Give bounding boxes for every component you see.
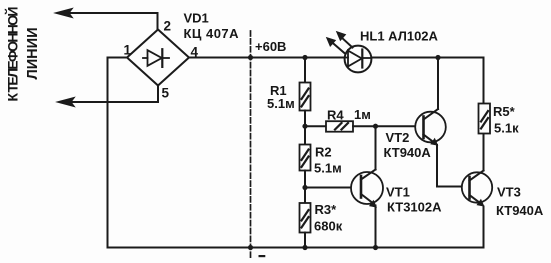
node: VT2 collector on top rail xyxy=(435,55,440,60)
resistor R4 xyxy=(305,121,416,132)
top rail wire from pin 4 to right corner xyxy=(189,57,484,59)
svg-text:5.1к: 5.1к xyxy=(494,121,519,136)
wire VT1 collector up to R4 wire xyxy=(375,126,377,169)
transistor VT1 xyxy=(351,170,383,208)
label minus xyxy=(259,255,266,257)
resistor R2 xyxy=(300,126,311,187)
svg-text:1м: 1м xyxy=(354,107,371,122)
wire VT1 emitter down to bottom rail xyxy=(375,206,377,248)
svg-text:VT1: VT1 xyxy=(386,185,410,200)
resistor R3* xyxy=(300,188,311,248)
svg-text:5.1м: 5.1м xyxy=(267,96,295,111)
svg-text:VT3: VT3 xyxy=(497,185,521,200)
LED HL1 diode symbol xyxy=(345,50,371,68)
wire VT2 emitter down and right to VT3 base xyxy=(437,145,462,187)
svg-text:R5*: R5* xyxy=(493,104,516,119)
wire VT2 collector up to top rail xyxy=(437,58,439,110)
node: VT1 collector on R4 wire xyxy=(373,124,378,129)
bridge rectifier VD1 diamond xyxy=(127,30,189,86)
arrow to telephone line (top) xyxy=(55,8,73,17)
svg-text:5.1м: 5.1м xyxy=(314,161,342,176)
node: R1 branch on top rail xyxy=(302,55,307,60)
bottom rail wire xyxy=(108,247,484,249)
arrow to telephone line (bottom) xyxy=(57,97,75,106)
wire VT3 emitter down to bottom rail corner xyxy=(483,207,485,248)
svg-text:КТ940А: КТ940А xyxy=(496,203,544,218)
svg-text:КТ3102А: КТ3102А xyxy=(387,200,442,215)
svg-text:2: 2 xyxy=(164,19,172,34)
LED emission arrow 2 xyxy=(337,32,353,48)
LED HL1 circle xyxy=(345,46,372,73)
svg-text:1: 1 xyxy=(124,43,132,58)
transistor VT3 xyxy=(462,171,492,207)
svg-text:680к: 680к xyxy=(314,219,343,234)
wire VT3 collector up to R5 xyxy=(483,134,485,171)
node: dashed line on top rail xyxy=(248,55,253,60)
diode symbol inside VD1 xyxy=(143,49,169,67)
svg-text:R2: R2 xyxy=(315,145,332,160)
svg-text:VD1: VD1 xyxy=(184,11,209,26)
resistor R5* xyxy=(479,58,491,134)
wire from bridge pin 5 to bottom arrow xyxy=(72,86,158,103)
wire from bridge pin 2 to top arrow xyxy=(70,13,158,30)
svg-text:R3*: R3* xyxy=(315,202,338,217)
svg-text:VT2: VT2 xyxy=(386,130,410,145)
node: VT1 emitter on bottom rail xyxy=(373,245,378,250)
svg-text:+60В: +60В xyxy=(255,39,286,54)
LED emission arrow 1 xyxy=(327,38,346,55)
wire from bridge pin 1 down to bottom rail xyxy=(108,58,128,248)
svg-text:КЦ 407А: КЦ 407А xyxy=(184,26,240,41)
svg-text:5: 5 xyxy=(162,86,170,101)
svg-text:R4: R4 xyxy=(327,108,344,123)
node: R3 bottom on bottom rail xyxy=(302,245,307,250)
svg-text:ЛИНИИ: ЛИНИИ xyxy=(25,28,41,80)
svg-text:КТ940А: КТ940А xyxy=(384,145,432,160)
svg-text:HL1 АЛ102А: HL1 АЛ102А xyxy=(360,29,439,44)
node A: R1/R2/R4 junction xyxy=(302,124,307,129)
dashed power-source line xyxy=(250,31,252,258)
resistor R1 xyxy=(300,58,311,127)
svg-text:К ТЕЛЕФОННОЙ: К ТЕЛЕФОННОЙ xyxy=(4,7,21,102)
node: dashed line on bottom rail xyxy=(248,245,253,250)
node B: R2/R3/VT1 base junction xyxy=(302,185,307,190)
transistor VT2 xyxy=(415,109,446,145)
wire VT1 base from node B xyxy=(305,187,352,189)
